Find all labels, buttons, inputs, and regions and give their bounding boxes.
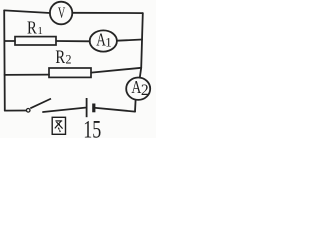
wire bottom left: [5, 110, 26, 112]
svg-text:1: 1: [38, 26, 43, 37]
wire right upper: [140, 13, 143, 78]
svg-text:V: V: [58, 3, 66, 22]
wire battery to switch: [43, 108, 85, 112]
caption glyph 图: [52, 117, 65, 134]
wire R2 to right: [91, 68, 141, 73]
ammeter A1: [90, 29, 117, 51]
wire R1 to A1: [56, 40, 90, 42]
wire left to R1: [4, 40, 15, 42]
wire left vertical: [3, 10, 6, 110]
svg-text:A: A: [131, 77, 141, 97]
voltmeter V: [50, 2, 72, 25]
resistor R1: [15, 17, 56, 45]
wire top right: [72, 12, 143, 14]
wire top left: [4, 10, 50, 13]
svg-text:R: R: [55, 47, 65, 68]
wire A1 to right: [117, 40, 142, 41]
svg-text:2: 2: [66, 53, 72, 67]
ammeter A2: [126, 77, 150, 100]
wire right lower: [134, 100, 137, 112]
resistor R2: [49, 47, 91, 78]
wire left to R2: [5, 74, 49, 76]
svg-text:15: 15: [83, 115, 101, 138]
switch: [26, 99, 51, 113]
wire bottom right: [96, 108, 135, 112]
svg-text:1: 1: [105, 35, 112, 50]
battery: [87, 98, 94, 117]
svg-text:R: R: [27, 17, 37, 37]
svg-text:2: 2: [141, 82, 149, 99]
